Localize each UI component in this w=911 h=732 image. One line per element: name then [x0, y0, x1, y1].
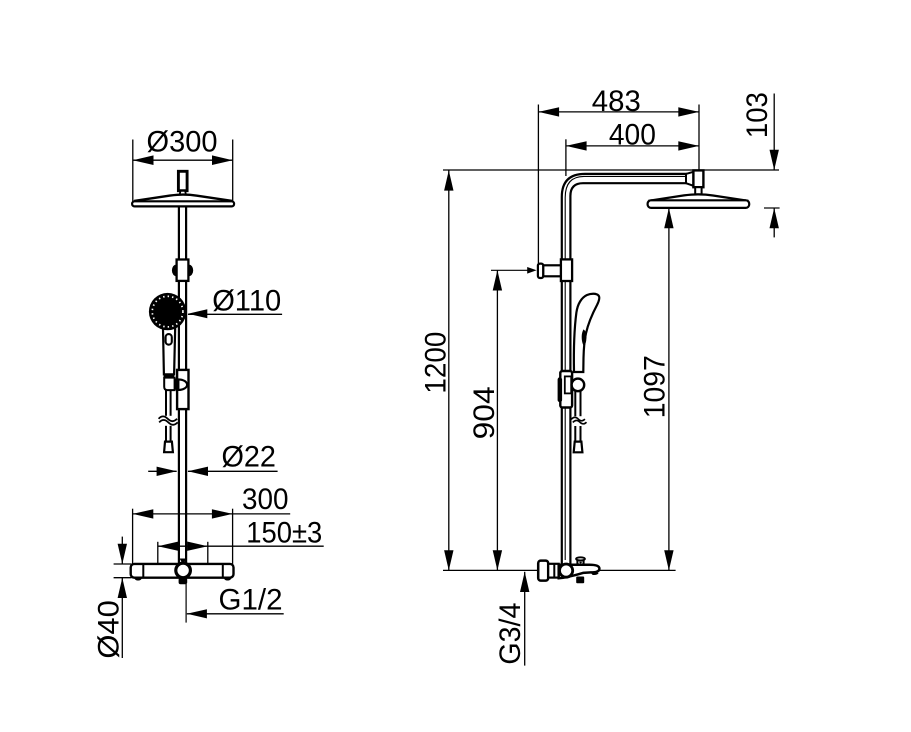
dimension Ø300 arrow left	[133, 155, 154, 165]
dimension Ø110 leader line	[188, 313, 282, 315]
dimension 1097 arrow down	[664, 550, 673, 570]
dimension 150±3 line	[158, 545, 324, 547]
hand shower paddle (side view)	[574, 294, 600, 372]
pipe collar joint	[177, 260, 189, 281]
overhead shower head rim (front view)	[132, 201, 234, 206]
dimension 103 upper line	[773, 94, 775, 171]
overhead shower head cone (front view)	[134, 195, 232, 202]
dimension 904 tick line	[491, 269, 529, 271]
dimension 103 tick	[764, 207, 780, 209]
riser pipe (front view)	[178, 207, 180, 564]
hose break squiggle 1	[159, 416, 178, 421]
valve connector divider	[553, 564, 555, 577]
svg-text:1097: 1097	[638, 355, 671, 418]
hose lower segment	[165, 426, 167, 442]
dimension 1200 arrow up	[444, 170, 453, 190]
overhead shower head rim (side view)	[648, 200, 750, 208]
valve diverter knob stem	[577, 559, 583, 564]
dimension 150±3 arrow left	[158, 542, 179, 551]
wall bracket tube	[543, 265, 563, 276]
svg-text:103: 103	[741, 92, 774, 138]
top reference line	[443, 169, 779, 171]
slider bracket on pipe	[177, 370, 188, 409]
wall bar mounting foot left	[135, 574, 142, 581]
riser and shower arm tube (side view)	[562, 174, 687, 565]
hose break squiggle 2 (side view)	[573, 420, 587, 423]
dimension 483 extension left	[537, 105, 539, 264]
valve diverter knob cap	[576, 557, 585, 560]
dimension 103 arrow up	[770, 208, 779, 228]
hose upper segment (side view)	[574, 390, 576, 416]
dimension 483/400 extension right	[698, 105, 700, 171]
dimension Ø300 extension line right	[232, 140, 234, 206]
dimension 300 extension left	[132, 509, 134, 564]
bar center connector circle	[176, 563, 191, 578]
overhead shower head cone (side view)	[648, 194, 748, 201]
hose upper segment	[165, 390, 167, 416]
dimension Ø40 tick bottom	[114, 577, 132, 579]
pipe end cone at bar	[180, 559, 187, 565]
connector neck	[695, 187, 701, 194]
wall bar end cap divider right	[222, 565, 224, 577]
svg-text:300: 300	[242, 483, 289, 516]
dimension 300 extension right	[232, 509, 234, 564]
riser collar (side view)	[561, 259, 572, 281]
hose end fitting	[164, 442, 173, 453]
dimension 904 line	[496, 270, 498, 570]
dimension Ø110 leader arrow	[188, 309, 207, 318]
svg-text:G3/4: G3/4	[494, 603, 527, 665]
collar knob right	[185, 265, 194, 277]
dimension G3/4 line	[524, 572, 526, 666]
valve connector section	[548, 564, 559, 578]
wall bar mounting foot right	[224, 574, 231, 581]
dimension 400 line	[566, 145, 699, 147]
svg-text:Ø300: Ø300	[147, 125, 218, 158]
dimension 150±3 arrow right	[187, 542, 208, 551]
dimension Ø40 upper line	[121, 537, 123, 564]
dimension 400 arrow left	[566, 141, 587, 150]
valve diverter pointer	[579, 562, 583, 564]
hose nut clamp	[164, 378, 174, 391]
dimension Ø22 arrow right	[188, 467, 208, 476]
svg-text:Ø40: Ø40	[93, 600, 126, 659]
arm end connector block	[693, 170, 703, 187]
dimension 904 arrow down	[493, 550, 502, 570]
svg-text:400: 400	[609, 118, 656, 151]
dimension Ø300 line	[133, 159, 233, 161]
valve wall flange	[538, 561, 548, 581]
slider knob D-shape	[178, 379, 187, 390]
dimension Ø300 extension line left	[132, 140, 134, 206]
bottom reference baseline	[443, 569, 676, 571]
dimension 483 line	[538, 111, 699, 113]
dimension 300 arrow left	[133, 509, 154, 518]
dimension 400 arrow right	[678, 141, 699, 150]
svg-text:Ø110: Ø110	[212, 285, 281, 318]
hose break squiggle 1 (side view)	[571, 417, 585, 420]
dimension 904 tick arrow	[527, 267, 536, 274]
dimension 1097 line	[668, 208, 670, 570]
holder ring	[572, 379, 585, 392]
dimension Ø40 arrow up	[118, 578, 127, 598]
dimension Ø22 arrow left	[157, 467, 177, 476]
dimension 300 arrow right	[212, 509, 233, 518]
slider lock knob (side view)	[558, 377, 563, 402]
hand shower face dotted nozzle ring	[152, 296, 183, 327]
hand shower dark mark	[583, 331, 586, 345]
wall bracket flange	[538, 264, 543, 278]
dimension 103 arrow down	[770, 150, 779, 170]
arm inner highlight line	[565, 176, 687, 560]
overhead shower stem joint	[180, 191, 186, 195]
dimension Ø40 arrow down	[118, 544, 127, 564]
svg-text:483: 483	[592, 85, 641, 118]
wall bar end cap divider left	[142, 565, 144, 577]
overhead shower stem	[178, 171, 187, 190]
slider bracket (side view)	[560, 371, 572, 408]
hand shower handle slot	[166, 334, 172, 345]
dimension 1200 line	[448, 170, 450, 570]
dimension Ø40 tick top	[114, 563, 132, 565]
dimension 150±3 extension left	[157, 542, 159, 564]
hose break squiggle 2	[159, 420, 178, 425]
arm end taper	[686, 172, 693, 186]
G1/2 extension line	[185, 584, 187, 623]
hand shower face disc	[149, 293, 186, 330]
dimension 904 arrow up	[493, 270, 502, 290]
G1/2 leader arrow	[187, 609, 207, 618]
collar knob left	[172, 265, 181, 277]
svg-text:Ø22: Ø22	[221, 440, 276, 473]
dimension 400 extension left	[565, 139, 567, 176]
dimension 1200 arrow down	[444, 550, 453, 570]
outlet fitting below bar	[179, 578, 188, 585]
svg-text:G1/2: G1/2	[219, 584, 283, 617]
valve riser connection circle	[560, 564, 573, 577]
dimension 150±3 extension right	[207, 542, 209, 564]
valve body and spout (side view)	[559, 565, 600, 579]
handle end cap band	[164, 374, 175, 377]
hose lower segment (side view)	[574, 426, 576, 442]
slider inner panel	[565, 376, 571, 393]
dimension Ø22 line right	[188, 470, 278, 472]
dimension Ø300 arrow right	[212, 155, 233, 165]
valve bottom outlet	[576, 577, 584, 584]
clamp dark band	[175, 378, 178, 389]
dimension G3/4 arrow up	[520, 572, 529, 592]
svg-text:150±3: 150±3	[246, 517, 322, 550]
svg-text:1200: 1200	[420, 332, 453, 394]
spout opening dark mark	[591, 572, 599, 575]
dimension 300 line	[133, 513, 291, 515]
dimension 103 lower line	[773, 208, 775, 237]
G1/2 leader line	[187, 613, 284, 615]
hand shower handle (front view)	[163, 318, 176, 374]
svg-text:904: 904	[468, 386, 501, 439]
hose end fitting (side view)	[574, 442, 583, 453]
dimension 483 arrow right	[678, 107, 699, 116]
wall bar (front view)	[131, 564, 234, 578]
dimension 1097 arrow up	[664, 208, 673, 228]
dimension 483 arrow left	[538, 107, 559, 116]
dimension Ø22 line left	[148, 470, 177, 472]
dimension Ø40 lower line	[121, 578, 123, 658]
